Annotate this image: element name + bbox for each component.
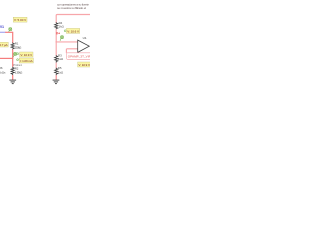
probe P2 [13, 52, 17, 57]
svg-text:13.5kΩ: 13.5kΩ [15, 45, 22, 49]
resistor R4 [55, 21, 65, 29]
annotation text block [57, 3, 89, 11]
wire (R1 to node) [12, 49, 14, 66]
svg-text:V: 10.9 V: V: 10.9 V [78, 63, 90, 67]
wire (node to op-amp IN-) [56, 41, 77, 43]
wire (node down to R3) [55, 42, 57, 56]
svg-text:R6: R6 [0, 66, 3, 70]
wire (V1 to node, red horizontal) [5, 31, 13, 33]
svg-text:OPAMP_3T_VIR: OPAMP_3T_VIR [68, 55, 90, 59]
probe P3 [60, 36, 64, 41]
svg-text:1.35kΩ: 1.35kΩ [15, 71, 23, 75]
svg-text:I: 1.09 mA: I: 1.09 mA [20, 59, 33, 63]
probe P2 readout I: 1.09 mA [17, 58, 34, 63]
wire (R2 to ground) [12, 75, 14, 80]
wire (R4 down to node V+) [55, 29, 57, 42]
probe P4 readout V: 10.9 V [78, 62, 91, 67]
svg-text:V: 5.00 V: V: 5.00 V [14, 18, 26, 22]
svg-text:V: 10.9 V: V: 10.9 V [20, 53, 32, 57]
ground (left) [9, 80, 16, 84]
svg-text:1kΩs: 1kΩs [0, 71, 6, 75]
probe P1 current readout 0.7 uA [0, 42, 8, 47]
wire (V1 lead, blue segment) [0, 32, 6, 33]
wire (IN+ down to label box) [65, 49, 67, 53]
op-amp model label OPAMP_3T_VIRTUAL [67, 53, 92, 60]
probe P1 [9, 28, 12, 32]
resistor R2 [11, 66, 23, 75]
probe P2 readout V: 10.9 V [17, 52, 33, 57]
wire (output top rail, pink) [56, 15, 90, 24]
svg-text:-0.7 μA: -0.7 μA [0, 43, 8, 47]
wire (node to left edge) [0, 57, 13, 59]
resistor R1 [11, 41, 22, 49]
wire (R5 to ground) [55, 75, 57, 80]
node V+ junction [55, 41, 57, 43]
svg-text:se muestra su filtrado el: se muestra su filtrado el [57, 6, 86, 10]
svg-text:R5: R5 [58, 66, 62, 70]
resistor R3 [55, 53, 64, 63]
probe P3 readout V: 10.6 V [64, 28, 80, 33]
svg-text:1kΩ: 1kΩ [59, 24, 65, 28]
resistor R5 [55, 66, 64, 76]
svg-text:V: 10.6 V: V: 10.6 V [67, 29, 79, 33]
svg-text:1kΩ: 1kΩ [58, 71, 64, 75]
svg-text:V+: V+ [56, 31, 60, 35]
svg-text:1kΩ: 1kΩ [58, 57, 64, 61]
probe P1 readout V: 5.00 V [13, 17, 27, 22]
ground (right) [53, 80, 60, 84]
wire (op-amp IN+ horizontal) [66, 48, 77, 50]
svg-text:U1: U1 [83, 36, 87, 40]
wire (top vertical to R1) [12, 32, 14, 43]
svg-text:V1: V1 [0, 25, 4, 29]
op-amp U1 [78, 36, 90, 53]
wire (R3 to R5) [55, 63, 57, 69]
